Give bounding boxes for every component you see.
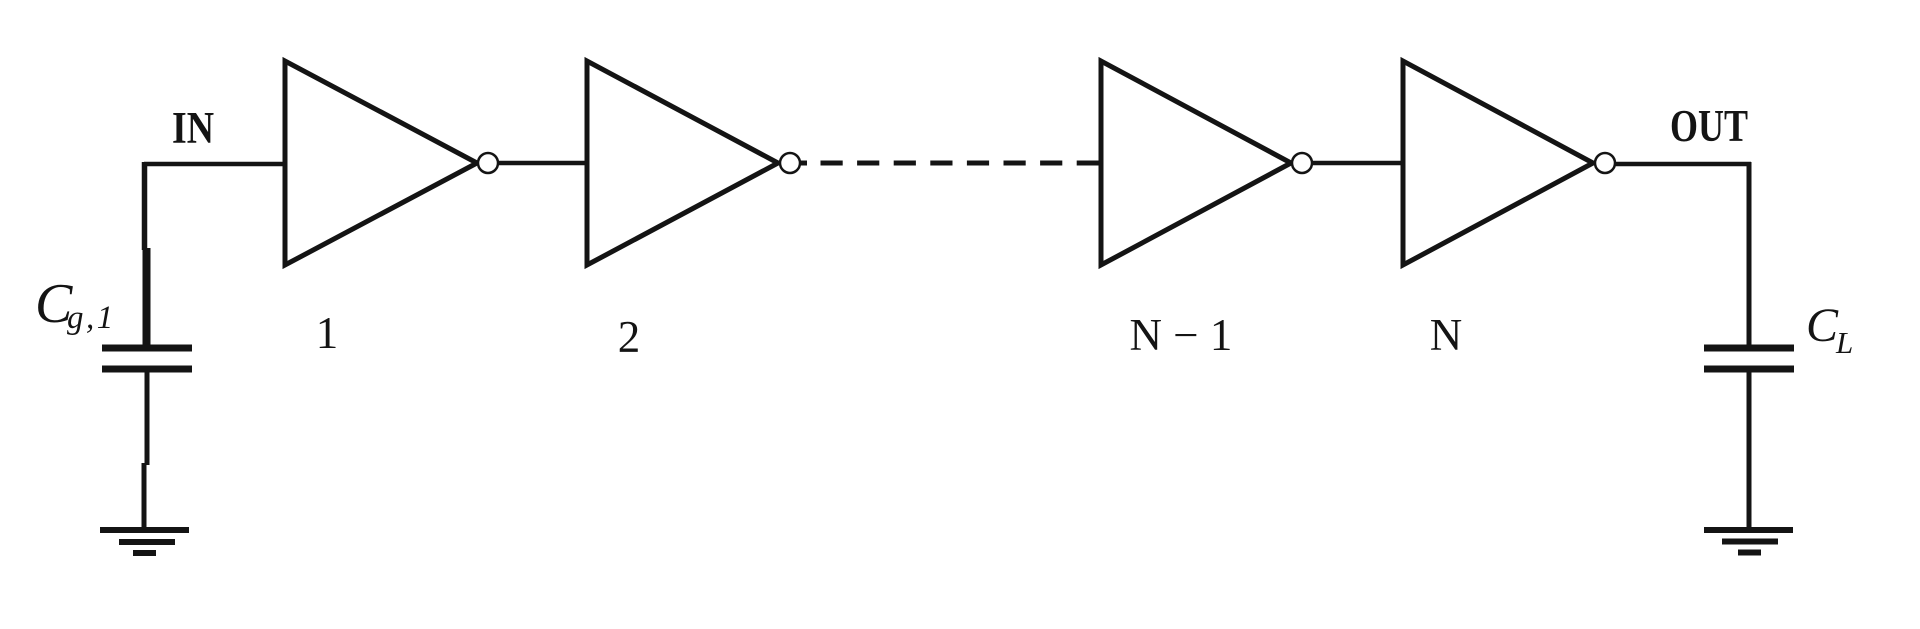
svg-text:C: C [1806,299,1839,352]
ground [1704,530,1793,553]
wire [145,372,150,465]
inverter 2 [587,61,800,265]
wire [497,161,591,166]
capacitor CL [1704,348,1794,369]
svg-text:N − 1: N − 1 [1130,310,1233,360]
svg-text:N: N [1430,310,1463,360]
wire [142,463,147,529]
capacitor Cg,1 [102,348,192,369]
wire (dashed) [821,161,1100,166]
wire [1747,372,1752,529]
svg-text:g,1: g,1 [67,300,116,336]
svg-text:L: L [1835,325,1853,360]
wire [1311,161,1406,166]
wire [1077,161,1104,166]
wire [143,248,151,351]
svg-text:2: 2 [618,312,641,362]
svg-text:IN: IN [172,103,214,153]
ground [100,530,189,553]
wire [799,161,807,166]
inverter N-1 [1101,61,1312,265]
svg-text:1: 1 [316,308,339,358]
inverter N [1403,61,1615,265]
wire [1614,162,1751,167]
svg-text:OUT: OUT [1670,101,1748,151]
wire [142,162,148,250]
inverter 1 [285,61,498,265]
wire [1747,162,1752,351]
wire [144,162,288,167]
